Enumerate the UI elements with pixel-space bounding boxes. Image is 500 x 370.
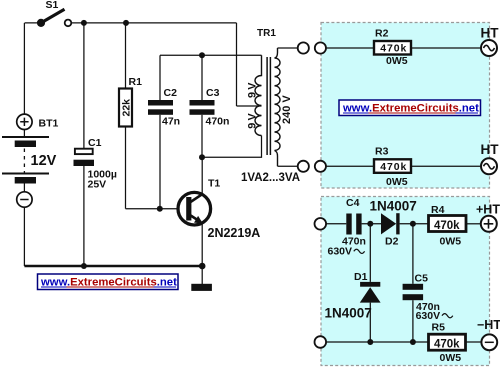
transformer TR1 primary winding [255, 55, 262, 135]
resistor R2 [374, 28, 411, 68]
node junction bottom rail emitter [199, 263, 206, 270]
svg-text:0W5: 0W5 [386, 55, 408, 67]
wire top rail [25, 22, 237, 24]
svg-text:0W5: 0W5 [440, 235, 462, 247]
svg-text:9V: 9V [246, 80, 258, 98]
wire bottom rail of rectifier [326, 341, 428, 343]
wire C5 to bottom rail [412, 300, 414, 342]
capacitor C5 [403, 272, 453, 322]
resistor R1 [119, 23, 142, 209]
svg-text:470n: 470n [206, 115, 230, 127]
watermark box bottom-left [38, 274, 179, 290]
svg-text:47n: 47n [162, 115, 180, 127]
wire base line [126, 208, 178, 210]
svg-text:R5: R5 [432, 322, 446, 334]
svg-text:470k: 470k [380, 43, 407, 55]
ground [191, 266, 212, 291]
svg-text:470k: 470k [434, 220, 460, 232]
svg-text:HT: HT [481, 142, 500, 157]
diode D2 [370, 199, 417, 248]
terminal -HT [477, 318, 500, 350]
wire terminal to C4 [326, 223, 346, 225]
wire C4 to D2 [362, 223, 381, 225]
svg-text:22k: 22k [121, 99, 133, 117]
resistor R4 [429, 204, 467, 247]
svg-text:C4: C4 [346, 197, 360, 209]
svg-text:0W5: 0W5 [386, 176, 408, 188]
node junction C5 bottom [410, 339, 416, 345]
node junction D1 bottom [367, 339, 373, 345]
svg-text:1N4007: 1N4007 [325, 306, 372, 321]
wire R5 to -HT [466, 341, 482, 343]
svg-text:470k: 470k [434, 339, 460, 351]
wire emitter to rail [201, 223, 203, 266]
wire terminal to R2 [326, 47, 374, 49]
wire R3 to HT [411, 165, 481, 167]
svg-text:R1: R1 [129, 76, 143, 88]
svg-text:R2: R2 [375, 28, 389, 40]
node junction C5 branch [410, 221, 416, 227]
svg-text:25V: 25V [88, 178, 107, 190]
wire terminal to R3 [326, 165, 374, 167]
node junction collector / C3 / primary bottom [199, 154, 205, 160]
transformer TR1 core [267, 57, 270, 155]
resistor R5 [429, 322, 466, 365]
svg-text:R3: R3 [375, 146, 389, 158]
wire left rail [23, 23, 25, 115]
svg-text:1VA2...3VA: 1VA2...3VA [241, 172, 300, 184]
svg-text:TR1: TR1 [257, 28, 276, 39]
node junction C3 top [199, 52, 205, 58]
shaded region bottom-right [321, 197, 490, 366]
svg-text:630V: 630V [416, 310, 441, 322]
svg-text:12V: 12V [31, 153, 57, 169]
transformer TR1 secondary winding [275, 48, 281, 166]
wire D1 to bottom rail [369, 303, 371, 342]
wire center tap [237, 105, 262, 107]
svg-text:C5: C5 [415, 272, 429, 284]
wire collector [201, 157, 203, 194]
svg-text:240 V: 240 V [281, 95, 293, 124]
terminal pair bottom [298, 161, 309, 172]
wire bottom rail [24, 265, 202, 268]
svg-text:9V: 9V [246, 111, 258, 129]
svg-text:C3: C3 [206, 87, 220, 99]
capacitor C3 [190, 55, 230, 157]
svg-text:S1: S1 [46, 0, 59, 11]
shaded region top-right [321, 23, 490, 189]
resistor R3 [374, 146, 411, 188]
svg-text:D1: D1 [354, 271, 368, 283]
svg-text:C1: C1 [88, 137, 102, 149]
capacitor C4 [328, 197, 366, 257]
wire R1 top feed to transformer tap [236, 23, 238, 106]
capacitor C1 electrolytic [74, 23, 117, 266]
svg-text:R4: R4 [431, 204, 445, 216]
svg-text:T1: T1 [208, 178, 220, 190]
svg-text:630V: 630V [328, 245, 353, 257]
svg-text:0W5: 0W5 [440, 352, 462, 364]
diode D1 [325, 271, 381, 321]
node junction top wire R1 [123, 20, 129, 26]
terminal input bottom region top rail [315, 218, 327, 230]
svg-text:−HT: −HT [477, 318, 500, 332]
wire D1 branch [369, 224, 371, 282]
node junction bottom rail C1 [81, 263, 87, 269]
svg-text:D2: D2 [385, 236, 399, 248]
wire battery to bottom rail [23, 207, 25, 266]
transistor T1 [178, 178, 260, 240]
wire feedback top (C2 C3 to primary) [160, 54, 262, 56]
node junction base C2 [157, 206, 163, 212]
terminal HT bottom (AC) [481, 142, 500, 174]
node junction top wire C1 [81, 20, 87, 26]
svg-text:470k: 470k [380, 161, 407, 173]
svg-text:1N4007: 1N4007 [370, 199, 417, 214]
svg-text:HT: HT [481, 25, 500, 40]
wire primary bottom to collector node [202, 136, 262, 158]
wire C5 branch [412, 224, 414, 284]
svg-text:BT1: BT1 [39, 118, 59, 130]
terminal HT top (AC) [481, 25, 500, 56]
terminal +HT [476, 203, 500, 232]
terminal input bottom region bottom rail [315, 336, 327, 348]
node junction D1 branch [367, 221, 373, 227]
watermark box top-right [339, 100, 481, 116]
svg-text:+HT: +HT [476, 203, 500, 217]
terminal pair top [298, 42, 309, 53]
battery BT1 [2, 114, 58, 207]
wire secondary bottom to terminals [278, 165, 298, 167]
wire secondary top to terminals [278, 47, 298, 49]
wire D2 to R4 [400, 223, 429, 225]
svg-text:C2: C2 [164, 87, 178, 99]
wire R2 to HT [411, 47, 481, 49]
switch S1 [37, 0, 71, 27]
capacitor C2 [148, 55, 180, 208]
wire R4 to +HT [466, 223, 481, 225]
svg-text:2N2219A: 2N2219A [208, 226, 261, 240]
